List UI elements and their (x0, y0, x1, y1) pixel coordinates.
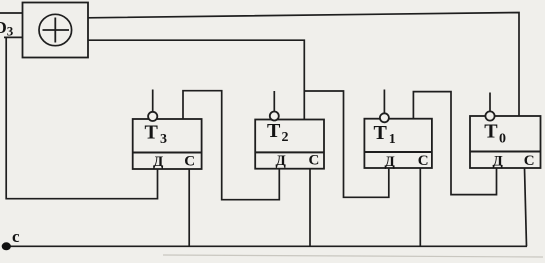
wire: T1 C input to clock bus (419, 168, 421, 246)
wire: T3 C input to clock bus (188, 169, 190, 246)
wire: D3 output node to XOR block left side (4, 36, 23, 38)
svg-text:3: 3 (7, 23, 14, 38)
wire: D3 feedback down left side and to T3 D input (6, 37, 157, 198)
faint scan artifact line (decorative, unlabeled) (163, 255, 543, 257)
node: clock input junction dot (2, 242, 11, 250)
wire: T2 C input to clock bus (309, 169, 311, 247)
wire: T2 inverted output stub (273, 91, 275, 112)
flip-flop T0 body (470, 116, 541, 168)
inverter bubble T0 (485, 111, 494, 120)
wire: T0 C input to clock bus (525, 168, 527, 246)
svg-text:C: C (309, 152, 320, 168)
svg-text:T: T (374, 122, 388, 144)
flip-flop T2 body (255, 120, 324, 169)
svg-text:Д: Д (153, 154, 164, 170)
inverter bubble T3 (148, 112, 157, 121)
svg-text:0: 0 (499, 132, 506, 147)
wire: T0 output up to XOR input A (top long run) (88, 13, 519, 117)
label T3 (145, 122, 168, 148)
svg-text:T: T (267, 120, 281, 142)
wire: T2 output up to XOR input B (88, 40, 304, 119)
svg-text:C: C (524, 153, 535, 169)
inverter bubble T1 (380, 113, 389, 122)
wire: T1 inverted output stub (383, 90, 385, 114)
wire: T3 output over to T2 D input (183, 91, 279, 200)
svg-text:C: C (418, 153, 429, 169)
svg-text:1: 1 (389, 132, 396, 147)
svg-text:T: T (145, 122, 159, 144)
label T2 (267, 120, 289, 145)
svg-text:Д: Д (276, 153, 287, 169)
svg-text:D: D (0, 18, 7, 37)
flip-flop T3 body (133, 119, 202, 169)
inverter bubble T2 (270, 112, 279, 121)
svg-text:T: T (484, 121, 498, 143)
label T0 (484, 121, 506, 147)
svg-text:2: 2 (282, 130, 289, 145)
wire: T3 inverted output stub (152, 90, 154, 113)
wire: T0 inverted output stub (489, 93, 491, 112)
wire: T2 output branch to T1 D input (304, 91, 389, 197)
svg-text:c: c (12, 227, 20, 246)
flip-flop T1 body (364, 119, 432, 168)
label D3 (0, 18, 14, 38)
wire: T1 output over to T0 D input (413, 92, 496, 195)
wire: input to XOR block top-left (0, 12, 23, 14)
label T1 (374, 122, 396, 147)
xor-adder D3 (modulo-2 adder block) (23, 3, 89, 58)
svg-text:C: C (184, 154, 195, 170)
svg-text:3: 3 (160, 132, 167, 147)
wire: clock bus c (6, 245, 527, 247)
svg-text:Д: Д (493, 154, 504, 170)
svg-text:Д: Д (385, 154, 396, 170)
